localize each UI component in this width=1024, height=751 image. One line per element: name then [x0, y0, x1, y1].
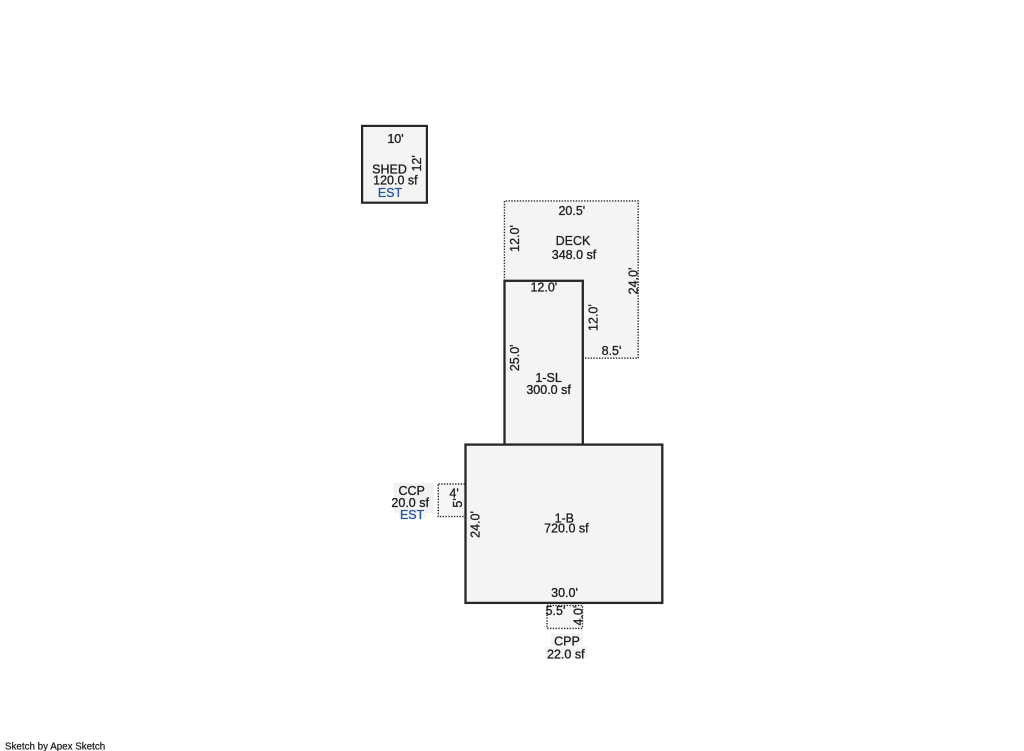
- svg-text:12.0': 12.0': [530, 281, 557, 295]
- svg-text:EST: EST: [400, 508, 425, 522]
- svg-text:12': 12': [410, 155, 424, 171]
- svg-text:10': 10': [387, 132, 403, 146]
- svg-text:EST: EST: [378, 186, 403, 200]
- svg-text:Sketch by Apex Sketch: Sketch by Apex Sketch: [5, 742, 105, 751]
- svg-text:5': 5': [451, 498, 465, 507]
- svg-text:25.0': 25.0': [508, 344, 522, 371]
- svg-text:120.0 sf: 120.0 sf: [373, 173, 418, 187]
- svg-text:8.5': 8.5': [602, 344, 622, 358]
- svg-text:5.5': 5.5': [546, 604, 566, 618]
- svg-text:24.0': 24.0': [469, 511, 483, 538]
- svg-text:24.0': 24.0': [626, 268, 640, 295]
- svg-text:4': 4': [449, 486, 458, 500]
- svg-text:720.0 sf: 720.0 sf: [544, 522, 589, 536]
- svg-text:12.0': 12.0': [586, 304, 600, 331]
- svg-text:CPP: CPP: [554, 634, 580, 648]
- svg-text:20.5': 20.5': [558, 204, 585, 218]
- svg-text:12.0': 12.0': [508, 225, 522, 252]
- svg-text:DECK: DECK: [556, 234, 591, 248]
- svg-text:22.0 sf: 22.0 sf: [547, 647, 585, 661]
- svg-text:348.0 sf: 348.0 sf: [552, 248, 597, 262]
- svg-text:4.0': 4.0': [571, 606, 585, 626]
- svg-text:300.0 sf: 300.0 sf: [526, 383, 571, 397]
- svg-text:30.0': 30.0': [551, 586, 578, 600]
